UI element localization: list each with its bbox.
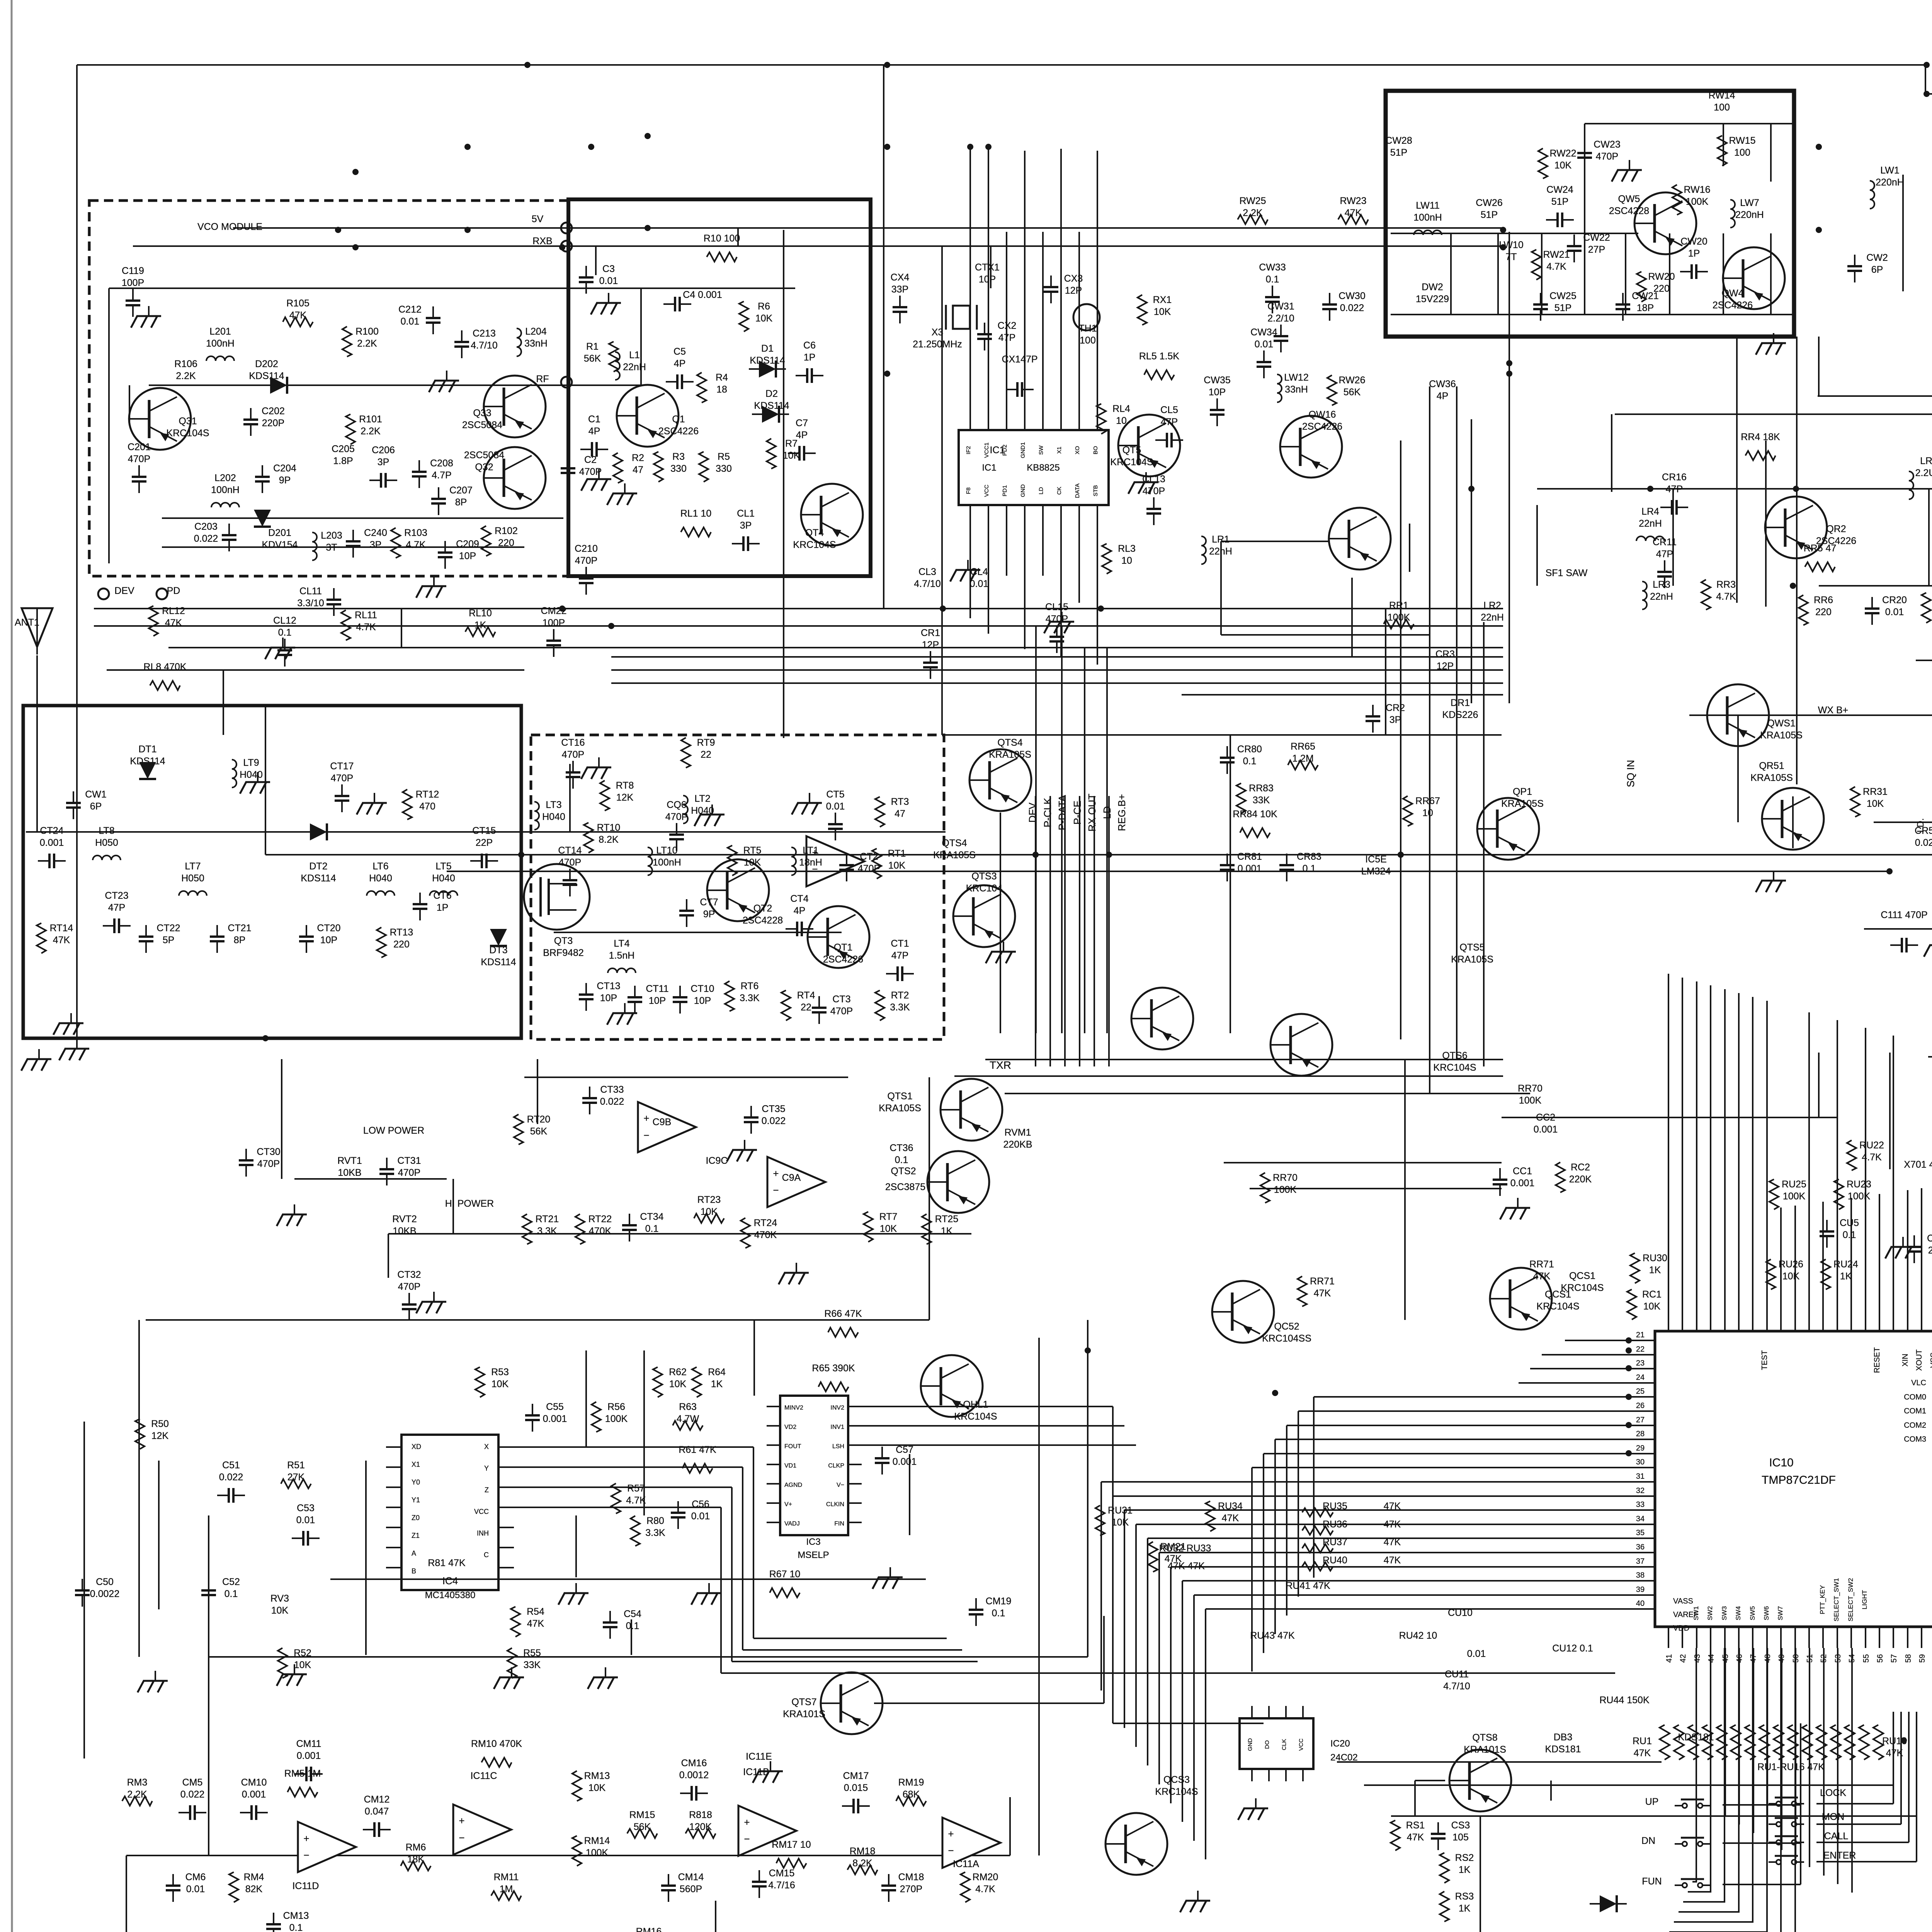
svg-text:SW3: SW3 (1721, 1606, 1728, 1621)
svg-text:CW1: CW1 (85, 789, 107, 800)
svg-text:10K: 10K (783, 450, 800, 461)
svg-text:RL4: RL4 (1112, 403, 1130, 414)
svg-text:−: − (744, 1833, 750, 1845)
svg-text:22nH: 22nH (1639, 518, 1662, 529)
svg-text:100: 100 (1734, 147, 1750, 158)
svg-text:4.7/10: 4.7/10 (1443, 1681, 1470, 1692)
svg-text:4.7P: 4.7P (432, 470, 451, 481)
svg-text:470P: 470P (559, 857, 581, 868)
svg-text:220: 220 (1815, 607, 1832, 617)
svg-text:C51: C51 (222, 1460, 240, 1471)
svg-text:59: 59 (1918, 1654, 1927, 1663)
svg-text:VSS: VSS (1929, 1352, 1932, 1368)
svg-text:CL15: CL15 (1045, 602, 1068, 612)
svg-text:X1: X1 (1056, 447, 1063, 454)
svg-text:QW4: QW4 (1722, 288, 1744, 299)
svg-text:H040: H040 (240, 769, 263, 780)
svg-text:COM2: COM2 (1904, 1421, 1926, 1430)
svg-text:D1: D1 (761, 343, 774, 354)
svg-text:CT23: CT23 (105, 890, 128, 901)
svg-text:56K: 56K (584, 353, 601, 364)
svg-text:FIN: FIN (834, 1520, 844, 1527)
svg-text:LW1: LW1 (1880, 165, 1900, 176)
svg-text:RT20: RT20 (527, 1114, 551, 1125)
svg-text:IC1: IC1 (990, 445, 1005, 456)
svg-text:R3: R3 (672, 451, 685, 462)
svg-text:15V229: 15V229 (1416, 294, 1449, 304)
svg-text:33P: 33P (891, 284, 908, 295)
svg-text:35: 35 (1636, 1529, 1645, 1537)
svg-text:RR65: RR65 (1291, 741, 1315, 752)
svg-text:RX1: RX1 (1153, 294, 1172, 305)
svg-text:CLKP: CLKP (828, 1463, 844, 1469)
svg-text:RL12: RL12 (162, 605, 185, 616)
svg-text:33nH: 33nH (1285, 384, 1308, 395)
svg-text:Q32: Q32 (475, 462, 493, 473)
svg-text:INH: INH (477, 1529, 489, 1537)
svg-text:LW7: LW7 (1740, 197, 1759, 208)
svg-text:INV1: INV1 (830, 1424, 844, 1430)
svg-text:QT1: QT1 (834, 942, 853, 953)
svg-text:KRA105S: KRA105S (879, 1103, 921, 1114)
svg-text:RC1: RC1 (1642, 1289, 1662, 1300)
svg-text:+: + (773, 1168, 779, 1179)
svg-text:R54: R54 (527, 1606, 544, 1617)
svg-text:RT24: RT24 (754, 1218, 777, 1228)
svg-text:QT2: QT2 (753, 903, 772, 914)
svg-text:CR2: CR2 (1386, 702, 1405, 713)
svg-text:RVT2: RVT2 (392, 1214, 417, 1225)
svg-text:2SC4228: 2SC4228 (1609, 206, 1649, 216)
svg-text:X3: X3 (932, 327, 944, 338)
svg-text:10KB: 10KB (393, 1226, 416, 1236)
svg-text:LD: LD (1038, 487, 1044, 494)
svg-text:SQ IN: SQ IN (1625, 760, 1636, 787)
svg-text:RC2: RC2 (1571, 1162, 1590, 1173)
svg-text:10K: 10K (880, 1223, 897, 1234)
svg-text:R65 390K: R65 390K (812, 1363, 855, 1374)
svg-text:0.047: 0.047 (365, 1806, 389, 1817)
svg-text:RU42 10: RU42 10 (1399, 1630, 1437, 1641)
svg-text:47K: 47K (53, 935, 70, 946)
svg-text:CR80: CR80 (1237, 744, 1262, 755)
svg-text:0.1: 0.1 (626, 1621, 639, 1631)
svg-text:2SC4226: 2SC4226 (658, 426, 699, 437)
svg-text:22: 22 (1636, 1345, 1645, 1354)
svg-text:R64: R64 (708, 1367, 726, 1378)
svg-text:1.5nH: 1.5nH (609, 950, 635, 961)
svg-text:RR3: RR3 (1716, 579, 1736, 590)
svg-text:RS3: RS3 (1455, 1891, 1474, 1902)
svg-text:XO: XO (1074, 446, 1081, 454)
svg-text:RT6: RT6 (741, 981, 759, 992)
svg-text:RM13: RM13 (584, 1770, 610, 1781)
svg-text:0.01: 0.01 (970, 578, 989, 589)
svg-text:RU44 150K: RU44 150K (1599, 1695, 1650, 1706)
svg-text:RXB: RXB (532, 236, 552, 247)
svg-text:CT4: CT4 (790, 893, 808, 904)
svg-text:GND: GND (1247, 1738, 1253, 1751)
svg-text:H040: H040 (432, 873, 455, 884)
svg-text:RT22: RT22 (588, 1214, 612, 1225)
svg-text:SF1 SAW: SF1 SAW (1546, 568, 1588, 578)
svg-text:0.1: 0.1 (1243, 756, 1257, 767)
svg-text:C202: C202 (262, 406, 285, 417)
svg-text:RM18: RM18 (850, 1846, 876, 1857)
svg-text:QTS4: QTS4 (997, 737, 1022, 748)
svg-text:V+: V+ (784, 1501, 792, 1508)
svg-text:R61 47K: R61 47K (679, 1444, 716, 1455)
svg-text:CL12: CL12 (273, 615, 296, 626)
svg-text:RU31: RU31 (1108, 1505, 1133, 1516)
svg-text:RT4: RT4 (797, 990, 815, 1001)
svg-text:100: 100 (1714, 102, 1730, 113)
svg-text:3P: 3P (1389, 714, 1401, 725)
svg-text:C5: C5 (673, 346, 686, 357)
svg-text:R103: R103 (404, 527, 427, 538)
svg-text:0.01: 0.01 (1467, 1648, 1486, 1659)
svg-text:C212: C212 (398, 304, 422, 315)
svg-text:4.7K: 4.7K (1546, 261, 1566, 272)
svg-text:REG.B+: REG.B+ (1116, 794, 1128, 831)
svg-text:KDS114: KDS114 (481, 957, 516, 968)
svg-text:10K: 10K (1782, 1271, 1800, 1282)
svg-text:KDS226: KDS226 (1442, 709, 1478, 720)
svg-text:0.01: 0.01 (599, 276, 618, 286)
svg-text:12P: 12P (1065, 285, 1082, 296)
svg-text:0.01: 0.01 (691, 1511, 710, 1522)
svg-text:100nH: 100nH (206, 338, 235, 349)
svg-text:STB: STB (1092, 485, 1099, 496)
svg-text:220nH: 220nH (1876, 177, 1904, 188)
svg-text:CR83: CR83 (1297, 851, 1321, 862)
svg-text:LW11: LW11 (1416, 200, 1440, 211)
svg-text:C111 470P: C111 470P (1881, 910, 1927, 920)
svg-text:RW14: RW14 (1708, 90, 1735, 101)
svg-text:CT6: CT6 (433, 890, 451, 901)
svg-text:0.022: 0.022 (1340, 303, 1364, 313)
svg-text:40: 40 (1636, 1599, 1645, 1608)
svg-text:0.022: 0.022 (180, 1789, 205, 1800)
svg-text:CL1: CL1 (737, 508, 755, 519)
svg-text:QW5: QW5 (1618, 194, 1640, 204)
svg-text:KRC104S: KRC104S (954, 1411, 997, 1422)
svg-text:47P: 47P (1161, 417, 1178, 427)
svg-text:2SC5084: 2SC5084 (462, 420, 502, 430)
svg-text:CT15: CT15 (472, 825, 496, 836)
svg-text:RF: RF (536, 374, 549, 384)
svg-text:KRA105S: KRA105S (1750, 772, 1793, 783)
svg-text:82K: 82K (245, 1884, 263, 1895)
svg-text:100K: 100K (605, 1413, 628, 1424)
svg-text:KDV154: KDV154 (262, 539, 298, 550)
svg-text:LT7: LT7 (185, 861, 201, 872)
svg-text:PD: PD (167, 585, 180, 596)
svg-text:VDD: VDD (1673, 1624, 1689, 1633)
svg-text:C55: C55 (546, 1401, 564, 1412)
svg-text:22nH: 22nH (623, 362, 646, 372)
svg-text:0.1: 0.1 (289, 1922, 303, 1932)
svg-text:HI POWER: HI POWER (445, 1198, 494, 1209)
svg-text:33nH: 33nH (524, 338, 548, 349)
svg-text:DT1: DT1 (138, 744, 156, 755)
svg-text:10K: 10K (271, 1605, 289, 1616)
svg-text:CT3: CT3 (832, 994, 850, 1005)
svg-text:PTT_KEY: PTT_KEY (1819, 1585, 1826, 1614)
svg-text:0.1: 0.1 (895, 1155, 908, 1165)
svg-text:WX B+: WX B+ (1818, 705, 1849, 716)
svg-text:47K: 47K (165, 617, 182, 628)
svg-text:27P: 27P (1588, 244, 1605, 255)
svg-text:CT30: CT30 (257, 1146, 280, 1157)
svg-text:QWS1: QWS1 (1767, 718, 1796, 729)
svg-text:22nH: 22nH (1650, 591, 1673, 602)
svg-text:CW31: CW31 (1267, 301, 1294, 312)
svg-text:RW23: RW23 (1340, 196, 1366, 206)
svg-text:0.022: 0.022 (600, 1096, 624, 1107)
svg-text:QCS3: QCS3 (1163, 1774, 1190, 1785)
svg-text:0.1: 0.1 (992, 1608, 1005, 1619)
svg-text:10P: 10P (979, 274, 996, 285)
svg-text:RT21: RT21 (536, 1214, 559, 1225)
svg-text:10P: 10P (1209, 387, 1226, 398)
svg-text:47K: 47K (1533, 1271, 1551, 1282)
svg-text:LT3: LT3 (546, 799, 561, 810)
svg-text:0.022: 0.022 (1915, 837, 1932, 848)
svg-text:BRF9482: BRF9482 (543, 947, 584, 958)
svg-text:1K: 1K (1649, 1265, 1661, 1276)
svg-text:RU30: RU30 (1643, 1253, 1667, 1264)
svg-text:CM6: CM6 (185, 1872, 206, 1883)
svg-text:3P: 3P (378, 457, 389, 468)
svg-text:41: 41 (1665, 1654, 1673, 1663)
svg-text:QTS4: QTS4 (942, 838, 967, 849)
svg-text:10K: 10K (1867, 798, 1884, 809)
svg-text:0.1: 0.1 (1303, 863, 1316, 874)
svg-text:24C02: 24C02 (1330, 1752, 1358, 1763)
svg-text:R2: R2 (632, 452, 644, 463)
svg-text:22: 22 (801, 1002, 811, 1013)
svg-text:D2: D2 (765, 388, 778, 399)
svg-text:CW34: CW34 (1250, 327, 1277, 338)
svg-text:33K: 33K (1253, 795, 1270, 806)
svg-text:Q31: Q31 (179, 416, 197, 427)
svg-text:R101: R101 (359, 414, 382, 425)
svg-text:47P: 47P (998, 332, 1015, 343)
svg-text:C209: C209 (456, 539, 479, 549)
svg-text:RVM1: RVM1 (1004, 1127, 1031, 1138)
svg-text:COM0: COM0 (1904, 1393, 1926, 1401)
svg-text:RT2: RT2 (891, 990, 909, 1001)
svg-text:KB8825: KB8825 (1027, 463, 1060, 473)
svg-text:QTS1: QTS1 (887, 1091, 912, 1102)
svg-text:4P: 4P (588, 426, 600, 437)
svg-text:Q1: Q1 (672, 414, 685, 425)
svg-text:55: 55 (1862, 1654, 1871, 1663)
svg-text:VCC: VCC (474, 1508, 489, 1515)
svg-text:RV3: RV3 (270, 1593, 289, 1604)
svg-text:QTS2: QTS2 (891, 1166, 916, 1177)
svg-text:47K: 47K (1634, 1748, 1651, 1759)
svg-text:RT23: RT23 (697, 1194, 721, 1205)
svg-text:MINV2: MINV2 (784, 1405, 803, 1411)
svg-text:CL5: CL5 (1160, 405, 1178, 415)
svg-text:LT8: LT8 (99, 825, 114, 836)
svg-text:CT5: CT5 (826, 789, 844, 800)
svg-text:DB3: DB3 (1554, 1732, 1573, 1743)
svg-text:56K: 56K (530, 1126, 548, 1137)
svg-text:C9A: C9A (782, 1172, 801, 1183)
svg-text:P-CE: P-CE (1071, 801, 1083, 825)
svg-text:RR71: RR71 (1529, 1259, 1554, 1270)
svg-text:1K: 1K (1459, 1903, 1471, 1914)
svg-text:KRC104S: KRC104S (1110, 457, 1153, 468)
svg-text:R57: R57 (627, 1483, 645, 1494)
svg-text:CT32: CT32 (397, 1269, 421, 1280)
svg-text:H040: H040 (542, 811, 565, 822)
svg-text:V−: V− (837, 1482, 844, 1488)
svg-text:RM20: RM20 (973, 1872, 998, 1883)
svg-text:29: 29 (1636, 1444, 1645, 1452)
svg-text:SELECT_SW2: SELECT_SW2 (1847, 1578, 1854, 1621)
svg-text:CW35: CW35 (1204, 375, 1230, 386)
svg-text:CX147P: CX147P (1002, 354, 1037, 365)
svg-text:CT35: CT35 (762, 1104, 785, 1114)
svg-text:C213: C213 (473, 328, 496, 339)
svg-text:RW15: RW15 (1729, 135, 1755, 146)
svg-text:27: 27 (1636, 1416, 1645, 1424)
svg-text:RL10: RL10 (469, 608, 492, 619)
svg-text:1.8P: 1.8P (333, 456, 353, 466)
svg-text:12K: 12K (616, 792, 634, 803)
svg-text:CT17: CT17 (330, 761, 354, 772)
svg-text:C6: C6 (803, 340, 816, 351)
svg-text:RU41 47K: RU41 47K (1286, 1580, 1330, 1591)
svg-text:CU11: CU11 (1445, 1669, 1469, 1680)
svg-text:KRA105S: KRA105S (989, 749, 1031, 760)
svg-text:DW2: DW2 (1422, 282, 1443, 293)
svg-text:QR51: QR51 (1759, 760, 1784, 771)
svg-text:ANT1: ANT1 (15, 617, 39, 628)
svg-text:KRC104S: KRC104S (166, 428, 209, 439)
svg-text:+: + (744, 1816, 750, 1828)
svg-text:I.D.: I.D. (1915, 818, 1926, 832)
svg-text:10P: 10P (459, 551, 476, 561)
svg-text:2SC4226: 2SC4226 (1302, 421, 1342, 432)
svg-text:C: C (484, 1551, 489, 1559)
svg-text:Y: Y (484, 1464, 489, 1472)
svg-text:7T: 7T (1505, 252, 1517, 262)
svg-text:UP: UP (1645, 1796, 1659, 1807)
svg-text:10: 10 (1422, 808, 1433, 818)
svg-text:0.01: 0.01 (186, 1884, 205, 1895)
svg-text:SW: SW (1038, 445, 1044, 455)
svg-text:RR70: RR70 (1518, 1083, 1543, 1094)
svg-text:IC5E: IC5E (1365, 854, 1387, 865)
svg-text:CS3: CS3 (1451, 1820, 1470, 1831)
svg-text:CW20: CW20 (1680, 236, 1707, 247)
svg-text:470P: 470P (1046, 614, 1068, 624)
svg-text:R67 10: R67 10 (769, 1569, 801, 1580)
svg-text:RU22: RU22 (1859, 1140, 1884, 1151)
svg-text:2.2UH: 2.2UH (1915, 468, 1932, 478)
svg-text:2SC4226: 2SC4226 (823, 954, 863, 965)
svg-text:10P: 10P (694, 995, 711, 1006)
svg-text:SELECT_SW1: SELECT_SW1 (1833, 1578, 1840, 1621)
svg-text:4.7/10: 4.7/10 (471, 340, 498, 351)
svg-text:8.2K: 8.2K (599, 834, 619, 845)
svg-text:KRC104S: KRC104S (1561, 1282, 1604, 1293)
svg-text:QR2: QR2 (1826, 524, 1846, 534)
svg-text:R63: R63 (679, 1401, 697, 1412)
svg-text:1P: 1P (804, 352, 816, 363)
svg-text:CR20: CR20 (1882, 595, 1907, 605)
svg-text:100K: 100K (1848, 1191, 1871, 1202)
svg-text:100K: 100K (1519, 1095, 1542, 1106)
svg-text:L201: L201 (209, 326, 231, 337)
svg-text:KDS114: KDS114 (301, 873, 336, 884)
svg-text:R66 47K: R66 47K (824, 1308, 862, 1319)
svg-text:4P: 4P (674, 358, 686, 369)
svg-text:CW28: CW28 (1385, 135, 1412, 146)
svg-text:DATA: DATA (1074, 483, 1081, 498)
svg-text:10K: 10K (588, 1782, 606, 1793)
svg-text:C204: C204 (273, 463, 296, 474)
svg-text:RT7: RT7 (879, 1211, 898, 1222)
svg-text:12K: 12K (151, 1430, 169, 1441)
svg-text:RW26: RW26 (1338, 375, 1365, 386)
svg-text:RR70: RR70 (1273, 1172, 1298, 1183)
svg-text:47P: 47P (108, 902, 125, 913)
svg-text:470P: 470P (1596, 151, 1618, 162)
svg-text:TXR: TXR (990, 1059, 1011, 1071)
svg-text:KRA105S: KRA105S (1451, 954, 1493, 965)
svg-text:220K: 220K (1569, 1174, 1592, 1185)
svg-text:R818: R818 (689, 1810, 712, 1820)
svg-text:470K: 470K (589, 1226, 612, 1236)
svg-text:R1: R1 (586, 341, 599, 352)
svg-text:31: 31 (1636, 1472, 1645, 1481)
svg-text:CW30: CW30 (1338, 291, 1365, 301)
svg-text:SW1: SW1 (1692, 1606, 1700, 1621)
svg-text:0.001: 0.001 (242, 1789, 266, 1800)
svg-text:Z1: Z1 (412, 1532, 420, 1539)
svg-text:CR3: CR3 (1435, 649, 1455, 660)
svg-text:QHL1: QHL1 (963, 1399, 988, 1410)
svg-text:CL11: CL11 (299, 586, 322, 597)
svg-text:MSELP: MSELP (798, 1550, 829, 1560)
svg-text:RM10 470K: RM10 470K (471, 1738, 522, 1749)
svg-text:VLC: VLC (1911, 1379, 1926, 1387)
svg-text:100nH: 100nH (653, 857, 681, 868)
svg-text:0.1: 0.1 (278, 627, 292, 638)
svg-text:DR1: DR1 (1451, 697, 1470, 708)
svg-text:CW21: CW21 (1632, 291, 1658, 301)
svg-text:KRC104SS: KRC104SS (1262, 1333, 1311, 1344)
svg-text:100: 100 (1080, 335, 1096, 346)
svg-text:3T: 3T (326, 542, 337, 553)
svg-text:0.001: 0.001 (297, 1750, 321, 1761)
svg-text:38: 38 (1636, 1571, 1645, 1580)
svg-text:C210: C210 (575, 543, 598, 554)
svg-text:C207: C207 (449, 485, 473, 496)
svg-text:47K: 47K (527, 1618, 544, 1629)
svg-text:RW25: RW25 (1239, 196, 1266, 206)
svg-text:47: 47 (895, 808, 905, 819)
svg-text:X1: X1 (412, 1461, 420, 1468)
svg-text:CM15: CM15 (769, 1868, 795, 1879)
svg-text:2SC5084: 2SC5084 (464, 450, 504, 461)
